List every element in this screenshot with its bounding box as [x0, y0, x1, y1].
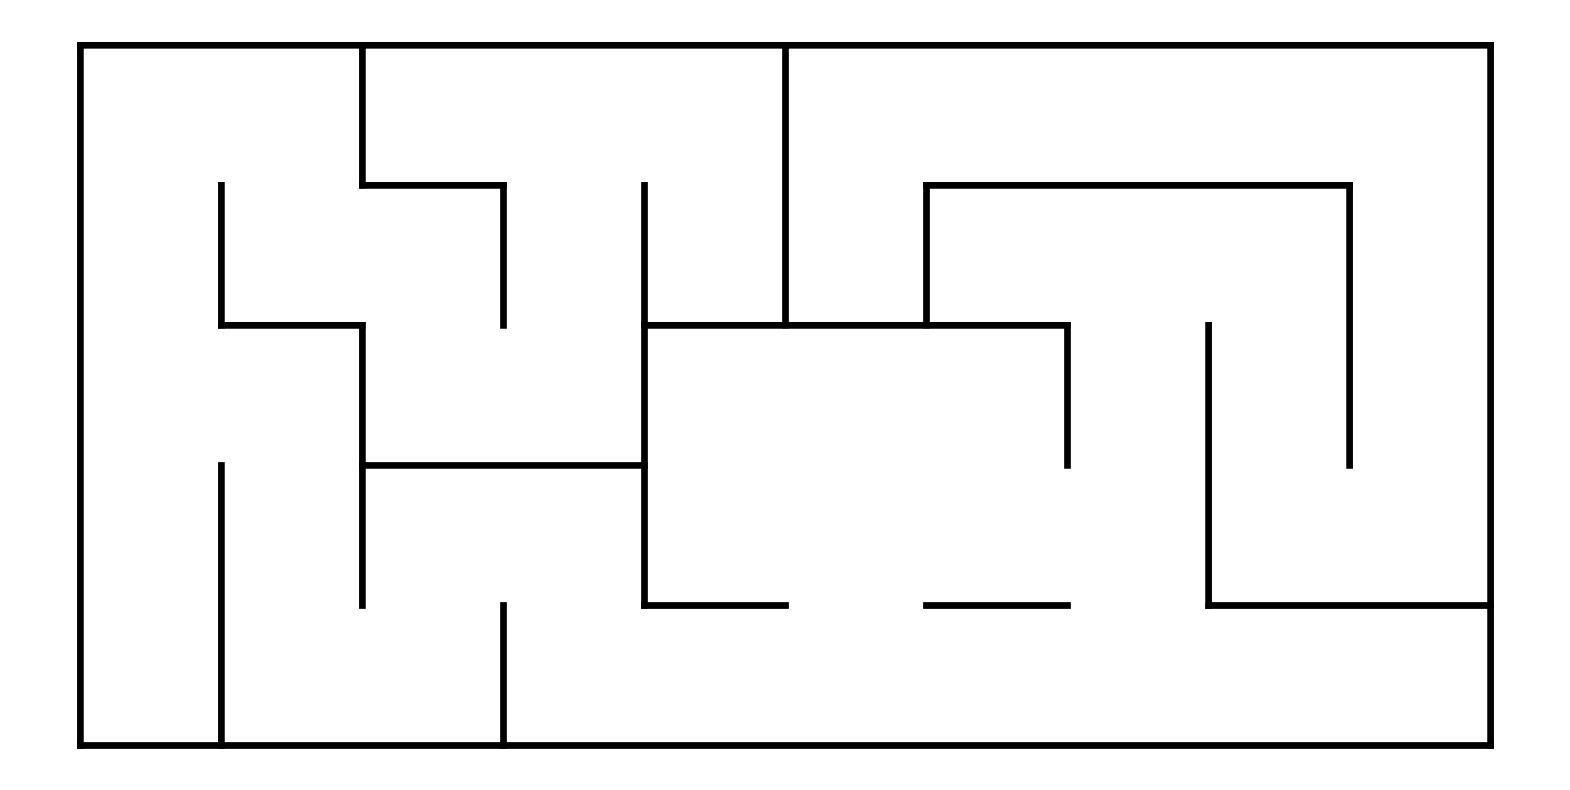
maze outer border top wall	[80, 42, 1490, 49]
inner wall I: horizontal at y=325 from x=644 to x=1067	[645, 322, 1068, 329]
inner wall R: horizontal at y=605 from x=644 to x=785	[645, 602, 786, 609]
inner wall H: vertical at x=644 from y=185 to y=605	[641, 185, 648, 605]
inner wall D: vertical stub at x=221 from y=185 to y=325	[218, 185, 225, 325]
inner wall O: vertical at x=1208 from y=325 to y=605	[1205, 325, 1212, 605]
inner wall L: horizontal at y=185 from x=926 to x=1349	[927, 182, 1350, 189]
inner wall M: vertical at x=1349 from y=185 to y=465	[1346, 185, 1353, 465]
inner wall A: vertical from top border at x=362	[359, 45, 366, 185]
maze outer border right wall	[1487, 45, 1494, 745]
maze outer border bottom wall	[80, 742, 1490, 749]
inner wall B: horizontal at y=185 from x=362 to x=503	[362, 182, 503, 189]
inner wall C: vertical at x=503 from y=185 to y=325	[500, 185, 507, 325]
inner wall P: horizontal at y=605 from x=1208 to right border	[1209, 602, 1491, 609]
maze outer border left wall	[77, 45, 84, 745]
inner wall T: vertical at x=503 from y=605 to bottom border	[500, 606, 507, 746]
inner wall S: vertical at x=221 from y=465 to bottom border	[218, 465, 225, 745]
inner wall F: vertical at x=362 from y=325 to y=605	[359, 325, 366, 605]
inner wall N: vertical at x=1067 from y=325 to y=465	[1064, 325, 1071, 465]
inner wall K: vertical at x=926 from y=185 to y=325	[923, 185, 930, 325]
inner wall E: horizontal at y=325 from x=221 to x=362	[221, 322, 362, 329]
inner wall Q: horizontal at y=605 from x=926 to x=1067	[927, 602, 1068, 609]
inner wall G: horizontal at y=465 from x=362 to x=644	[362, 462, 644, 469]
inner wall J: vertical from top border at x=785 down to y=325	[782, 45, 789, 325]
